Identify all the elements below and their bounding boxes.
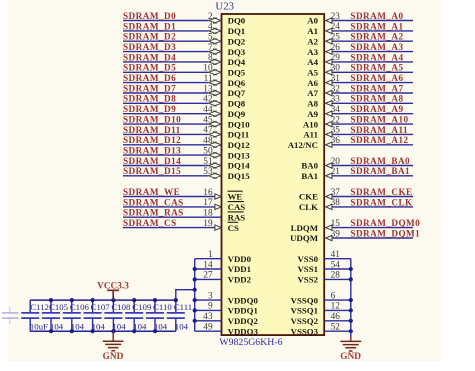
svg-text:SDRAM_A7: SDRAM_A7 [350,83,403,93]
pin 23 input glyph [324,20,326,22]
wire net SDRAM_A8 [332,102,413,104]
svg-text:46: 46 [331,312,341,322]
wire VSS pin 46 [324,320,351,322]
junction [174,298,178,302]
capacitor C107 [84,300,111,332]
svg-text:SDRAM_D13: SDRAM_D13 [123,146,181,156]
wire VDD pin 49 [195,330,222,332]
wire cap bank bottom rail [30,330,176,332]
pin 33 input glyph [324,102,326,104]
svg-text:VSS1: VSS1 [297,264,318,274]
wire net SDRAM_D12 [123,144,208,146]
svg-text:SDRAM_D12: SDRAM_D12 [123,135,181,145]
svg-text:LDQM: LDQM [291,223,319,233]
svg-text:SDRAM_D10: SDRAM_D10 [123,115,181,125]
pin 21 input glyph [324,175,326,177]
junction [193,288,197,292]
svg-text:41: 41 [331,250,341,260]
svg-text:104: 104 [175,322,189,332]
capacitor C110 [146,300,172,332]
pin 2 bidirectional glyph [209,18,222,24]
svg-text:UDQM: UDQM [290,233,319,243]
svg-text:17: 17 [203,198,213,208]
junction [193,267,197,271]
svg-text:SDRAM_BA0: SDRAM_BA0 [350,156,410,166]
wire net SDRAM_D14 [123,165,208,167]
svg-text:VSS0: VSS0 [297,254,318,264]
ground GND (VSS) [340,331,361,362]
svg-text:25: 25 [331,33,341,43]
wire net SDRAM_A6 [332,82,413,84]
pin 48 bidirectional glyph [209,142,222,148]
wire VSS pin 6 [324,299,351,301]
junction [349,267,353,271]
svg-text:SDRAM_CKE: SDRAM_CKE [350,187,412,197]
junction [193,319,197,323]
svg-text:WE: WE [228,192,243,202]
wire VDD pin 27 [195,278,222,280]
svg-text:SDRAM_CLK: SDRAM_CLK [350,197,413,207]
svg-text:RAS: RAS [228,212,246,222]
svg-text:VDDQ0: VDDQ0 [228,295,259,305]
junction [193,277,197,281]
power port VCC3.3 [97,281,129,300]
svg-text:DQ1: DQ1 [228,26,246,36]
wire net SDRAM_A4 [332,61,413,63]
svg-text:43: 43 [203,312,213,322]
ground GND (capacitor bank) [103,331,124,362]
svg-text:DQ7: DQ7 [228,88,246,98]
junction [91,298,95,302]
svg-text:SDRAM_A6: SDRAM_A6 [350,73,403,83]
svg-text:VDD0: VDD0 [228,254,252,264]
pin 25 input glyph [324,40,326,42]
svg-text:U23: U23 [215,0,234,12]
pin 16 input glyph [215,194,221,199]
wire VDD pin 43 [195,320,222,322]
wire net SDRAM_D9 [123,113,208,115]
wire net SDRAM_A12 [332,144,413,146]
svg-text:30: 30 [331,64,341,74]
svg-text:A2: A2 [307,36,318,46]
junction [111,298,115,302]
pin 8 bidirectional glyph [209,59,222,65]
wire cap bank top rail [30,299,176,301]
pin 42 bidirectional glyph [209,100,222,106]
junction [349,329,353,333]
svg-text:A12/NC: A12/NC [288,140,318,150]
svg-text:14: 14 [203,260,213,270]
svg-text:GND: GND [103,352,124,362]
svg-text:15: 15 [331,219,341,229]
svg-text:SDRAM_D0: SDRAM_D0 [123,11,176,21]
svg-text:52: 52 [331,323,341,333]
junction [193,298,197,302]
pin 17 input glyph [215,204,221,209]
svg-text:C112: C112 [30,302,49,312]
svg-text:BA1: BA1 [301,171,318,181]
svg-text:DQ5: DQ5 [228,68,246,78]
wire net SDRAM_A3 [332,51,413,53]
junction [349,298,353,302]
svg-text:BA0: BA0 [301,161,318,171]
svg-text:VDDQ1: VDDQ1 [228,306,258,316]
svg-text:1: 1 [208,250,213,260]
svg-text:A10: A10 [303,119,319,129]
svg-text:SDRAM_A3: SDRAM_A3 [350,42,403,52]
pin 20 input glyph [324,165,326,167]
pin 22 input glyph [324,123,326,125]
wire net SDRAM_D10 [123,123,208,125]
wire net SDRAM_A0 [332,20,413,22]
svg-text:A3: A3 [307,47,318,57]
wire VSS pin 41 [324,258,351,260]
svg-text:A6: A6 [307,78,318,88]
svg-text:SDRAM_A1: SDRAM_A1 [350,21,403,31]
svg-text:21: 21 [331,167,341,177]
svg-text:SDRAM_D1: SDRAM_D1 [123,21,176,31]
svg-text:32: 32 [331,84,341,94]
wire VSS pin 28 [324,278,351,280]
svg-text:A7: A7 [307,88,318,98]
svg-text:10uF: 10uF [30,322,48,332]
svg-text:SDRAM_A12: SDRAM_A12 [350,135,408,145]
svg-text:A1: A1 [307,26,318,36]
wire net SDRAM_A5 [332,71,413,73]
junction [349,319,353,323]
pin 29 input glyph [324,61,326,63]
pin 11 bidirectional glyph [209,80,222,86]
wire VSS pin 52 [324,330,351,332]
svg-text:SDRAM_A10: SDRAM_A10 [350,115,408,125]
wire net SDRAM_D13 [123,154,208,156]
svg-text:SDRAM_CAS: SDRAM_CAS [123,197,184,207]
svg-text:CS: CS [228,223,239,233]
pin 45 bidirectional glyph [209,121,222,127]
svg-text:A4: A4 [307,57,318,67]
svg-text:C111: C111 [174,302,192,312]
svg-text:SDRAM_D2: SDRAM_D2 [123,32,176,42]
svg-text:SDRAM_A4: SDRAM_A4 [350,52,403,62]
svg-text:22: 22 [331,115,341,125]
junction [349,277,353,281]
capacitor C111 [167,300,192,332]
pin 51 bidirectional glyph [209,163,222,169]
svg-text:SDRAM_D9: SDRAM_D9 [123,104,176,114]
svg-text:16: 16 [203,188,213,198]
svg-text:9: 9 [208,302,213,312]
pin 35 input glyph [324,133,326,135]
svg-text:SDRAM_RAS: SDRAM_RAS [123,208,184,218]
svg-text:A9: A9 [307,109,318,119]
junction [349,308,353,312]
svg-text:DQ4: DQ4 [228,57,246,67]
pin 47 bidirectional glyph [209,132,222,138]
svg-text:C106: C106 [70,302,90,312]
capacitor C105 [42,300,69,332]
pin 32 input glyph [324,92,326,94]
wire net SDRAM_A2 [332,40,413,42]
wire cap-bank to VDD bus link [176,290,195,300]
svg-text:SDRAM_D7: SDRAM_D7 [123,83,176,93]
svg-text:DQ6: DQ6 [228,78,246,88]
svg-text:DQ10: DQ10 [228,119,251,129]
pin 10 bidirectional glyph [209,69,222,75]
svg-text:VDD1: VDD1 [228,264,251,274]
wire VDD pin 1 [195,258,222,260]
svg-text:DQ2: DQ2 [228,36,246,46]
svg-text:SDRAM_DQM0: SDRAM_DQM0 [350,218,420,228]
svg-text:SDRAM_A0: SDRAM_A0 [350,11,403,21]
junction [193,308,197,312]
svg-text:CAS: CAS [228,202,246,212]
svg-text:SDRAM_A9: SDRAM_A9 [350,104,403,114]
pin 53 bidirectional glyph [209,173,222,179]
pin 5 bidirectional glyph [209,38,222,44]
pin 38 input glyph [324,206,326,208]
capacitor C112 [21,300,49,332]
svg-text:3: 3 [208,291,213,301]
svg-text:VCC3.3: VCC3.3 [97,281,129,291]
svg-text:CLK: CLK [299,202,318,212]
pin 26 input glyph [324,51,326,53]
junction [70,298,74,302]
wire net SDRAM_BA0 [332,165,413,167]
svg-text:29: 29 [331,53,341,63]
wire VDD pin 9 [195,309,222,311]
svg-text:DQ9: DQ9 [228,109,246,119]
wire net SDRAM_A7 [332,92,413,94]
svg-text:A11: A11 [303,130,318,140]
svg-text:27: 27 [203,271,213,281]
wire net SDRAM_A10 [332,123,413,125]
svg-text:SDRAM_CS: SDRAM_CS [123,218,177,228]
wire net SDRAM_D4 [123,61,208,63]
wire net SDRAM_D15 [123,175,208,177]
wire net SDRAM_CLK [332,206,413,208]
svg-text:VDD2: VDD2 [228,275,252,285]
wire net SDRAM_DQM1 [332,237,413,239]
svg-text:SDRAM_A8: SDRAM_A8 [350,94,403,104]
svg-text:19: 19 [203,219,213,229]
svg-text:35: 35 [331,126,341,136]
pin 31 input glyph [324,82,326,84]
svg-text:20: 20 [331,157,341,167]
svg-text:VSSQ2: VSSQ2 [291,316,319,326]
wire net SDRAM_RAS [123,216,221,218]
wire net SDRAM_D6 [123,82,208,84]
svg-text:SDRAM_D4: SDRAM_D4 [123,52,176,62]
wire net SDRAM_CAS [123,206,215,208]
svg-text:VSSQ3: VSSQ3 [291,326,319,336]
pin 30 input glyph [324,71,326,73]
wire VDD pin 14 [195,268,222,270]
svg-text:49: 49 [203,323,213,333]
svg-text:33: 33 [331,95,341,105]
svg-text:54: 54 [331,260,341,270]
svg-text:DQ11: DQ11 [228,130,250,140]
svg-text:26: 26 [331,43,341,53]
svg-text:DQ14: DQ14 [228,161,251,171]
pin 50 bidirectional glyph [209,152,222,158]
svg-text:DQ8: DQ8 [228,99,246,109]
pin 39 input glyph [324,237,326,239]
svg-text:A0: A0 [307,16,318,26]
svg-text:VDDQ2: VDDQ2 [228,316,259,326]
pin 13 bidirectional glyph [209,90,222,96]
capacitor C109 [125,300,152,332]
svg-text:DQ13: DQ13 [228,150,251,160]
pin 19 input glyph [215,225,221,230]
svg-text:DQ15: DQ15 [228,171,251,181]
svg-text:6: 6 [331,291,336,301]
svg-text:DQ3: DQ3 [228,47,246,57]
svg-text:W9825G6KH-6: W9825G6KH-6 [219,337,282,348]
IC U23 (W9825G6KH-6 SDRAM) [222,14,325,335]
svg-text:SDRAM_A2: SDRAM_A2 [350,32,403,42]
pin 44 bidirectional glyph [209,111,222,117]
wire net SDRAM_WE [123,196,215,198]
svg-text:12: 12 [331,302,341,312]
svg-text:VSS2: VSS2 [297,275,318,285]
pin 4 bidirectional glyph [209,28,222,34]
svg-text:SDRAM_D5: SDRAM_D5 [123,63,176,73]
wire VSS pin 54 [324,268,351,270]
svg-text:GND: GND [340,352,361,362]
pin 24 input glyph [324,30,326,32]
svg-text:38: 38 [331,198,341,208]
svg-text:CKE: CKE [299,192,318,202]
svg-text:VDDQ3: VDDQ3 [228,326,259,336]
svg-text:36: 36 [331,136,341,146]
wire VSS bus vertical [350,259,352,332]
svg-text:SDRAM_D11: SDRAM_D11 [123,125,181,135]
svg-text:C105: C105 [49,302,69,312]
wire net SDRAM_DQM0 [332,227,413,229]
svg-text:SDRAM_WE: SDRAM_WE [123,187,180,197]
capacitor (partial, cut off at left edge) [2,307,19,324]
junction [153,298,157,302]
junction [132,298,136,302]
svg-text:SDRAM_D8: SDRAM_D8 [123,94,176,104]
junction [49,298,53,302]
svg-text:C109: C109 [132,302,152,312]
pin 37 input glyph [324,196,326,198]
capacitor C108 [104,300,131,332]
svg-text:C107: C107 [91,302,111,312]
pin 15 input glyph [324,227,326,229]
wire net SDRAM_D5 [123,71,208,73]
svg-text:DQ0: DQ0 [228,16,246,26]
svg-text:SDRAM_A11: SDRAM_A11 [350,125,408,135]
wire net SDRAM_D0 [123,20,208,22]
svg-text:DQ12: DQ12 [228,140,251,150]
svg-text:SDRAM_D6: SDRAM_D6 [123,73,176,83]
svg-text:39: 39 [331,229,341,239]
svg-text:31: 31 [331,74,341,84]
svg-text:A8: A8 [307,99,318,109]
wire net SDRAM_D8 [123,102,208,104]
wire net SDRAM_D3 [123,51,208,53]
svg-text:SDRAM_DQM1: SDRAM_DQM1 [350,228,420,238]
pin 34 input glyph [324,113,326,115]
capacitor C106 [63,300,90,332]
svg-text:A5: A5 [307,68,318,78]
wire VDD bus vertical [194,259,196,332]
svg-text:SDRAM_D3: SDRAM_D3 [123,42,176,52]
svg-text:SDRAM_A5: SDRAM_A5 [350,63,403,73]
wire VSS pin 12 [324,309,351,311]
svg-text:SDRAM_BA1: SDRAM_BA1 [350,166,410,176]
wire net SDRAM_A1 [332,30,413,32]
svg-text:C108: C108 [111,302,131,312]
svg-text:34: 34 [331,105,341,115]
svg-text:SDRAM_D14: SDRAM_D14 [123,156,181,166]
svg-text:23: 23 [331,12,341,22]
wire net SDRAM_D11 [123,133,208,135]
svg-text:SDRAM_D15: SDRAM_D15 [123,166,181,176]
wire net SDRAM_D2 [123,40,208,42]
pin 7 bidirectional glyph [209,49,222,55]
wire net SDRAM_CS [123,227,215,229]
wire net SDRAM_A9 [332,113,413,115]
svg-text:28: 28 [331,271,341,281]
wire VDD pin 3 [195,299,222,301]
wire net SDRAM_CKE [332,196,413,198]
wire net SDRAM_A11 [332,133,413,135]
wire net SDRAM_BA1 [332,175,413,177]
svg-text:VSSQ1: VSSQ1 [291,306,318,316]
svg-text:C110: C110 [153,302,172,312]
svg-text:18: 18 [203,209,213,219]
wire net SDRAM_D1 [123,30,208,32]
svg-text:37: 37 [331,188,341,198]
pin 36 input glyph [324,144,326,146]
wire net SDRAM_D7 [123,92,208,94]
svg-text:24: 24 [331,22,341,32]
svg-text:VSSQ0: VSSQ0 [291,295,319,305]
